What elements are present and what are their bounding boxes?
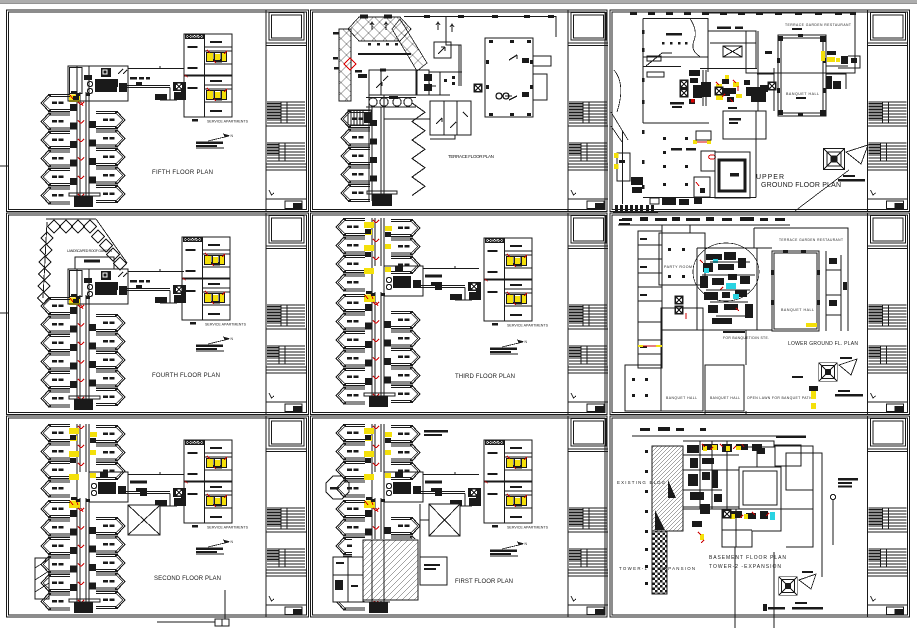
right service corridor <box>826 251 848 331</box>
sheet r2c3 frame <box>610 213 910 415</box>
svg-text:LOWER GROUND FL. PLAN: LOWER GROUND FL. PLAN <box>788 341 858 347</box>
svg-text:LANDSCAPED ROOF GARDEN: LANDSCAPED ROOF GARDEN <box>67 249 112 253</box>
dance floor ellipse <box>693 243 759 301</box>
coffee shop text <box>670 102 684 108</box>
tower block <box>41 66 186 207</box>
kite flag <box>846 145 868 164</box>
kitchen column <box>680 80 689 89</box>
lobby curve <box>690 19 700 57</box>
cross shaft <box>723 46 742 57</box>
stilted area walls <box>662 225 772 414</box>
diamond roof top row <box>348 17 411 41</box>
left annex <box>617 153 630 181</box>
svg-text:TERRACE GARDEN RESTAURANT: TERRACE GARDEN RESTAURANT <box>779 238 843 242</box>
party room <box>659 233 705 285</box>
left margin leader ticks <box>0 165 8 167</box>
cross box <box>420 504 460 557</box>
svg-text:BANQUET HALL: BANQUET HALL <box>666 396 697 400</box>
central core mass <box>744 80 768 102</box>
svg-text:GROUND FLOOR PLAN: GROUND FLOOR PLAN <box>761 182 841 189</box>
restaurant outline <box>754 228 848 277</box>
top arrows <box>370 22 454 32</box>
banquet hall <box>778 35 826 116</box>
building outer walls <box>643 13 855 198</box>
left wall ticks <box>642 30 645 189</box>
stilted area text <box>723 331 745 333</box>
service apartments block <box>484 440 549 530</box>
top room text <box>717 27 743 29</box>
sheet r1c3 frame <box>610 10 910 212</box>
porch blobs <box>662 198 702 205</box>
interior walls <box>683 441 775 547</box>
road line <box>795 170 849 211</box>
dotted row <box>358 43 411 55</box>
kitchen core <box>68 269 150 304</box>
kitchen core <box>68 66 150 101</box>
checkerboard strip <box>652 531 667 594</box>
bank hall columns <box>663 137 688 186</box>
diamond roof right leg <box>392 19 427 71</box>
building outline <box>683 441 822 577</box>
dense interior bits <box>687 444 768 527</box>
corridor jambs <box>370 120 377 182</box>
lift <box>723 510 732 519</box>
north arrow <box>196 134 234 149</box>
service apartments block <box>182 237 247 327</box>
svg-text:FIFTH FLOOR PLAN: FIFTH FLOOR PLAN <box>152 170 213 176</box>
SHEET r3c3 : BASEMENT FLOOR PLAN <box>617 427 858 628</box>
masks <box>352 539 420 601</box>
terrace tower corridor <box>369 95 430 201</box>
stair block left <box>348 110 371 125</box>
north arrow <box>490 340 528 355</box>
svg-text:BANQUET HALL: BANQUET HALL <box>710 396 740 400</box>
mid room block <box>430 101 471 139</box>
north arrow <box>196 540 234 555</box>
title strips <box>266 10 306 211</box>
level text <box>835 357 863 396</box>
tower block <box>41 472 186 613</box>
SHEET r2c1 : FOURTH FLOOR PLAN <box>38 219 247 410</box>
yellow service cluster NE <box>821 51 840 62</box>
entry steps comb <box>615 205 654 212</box>
left hatch strip <box>652 446 683 531</box>
sheet r1c1 frame <box>7 10 309 212</box>
long verticals <box>734 547 736 628</box>
left annex rooms <box>333 557 363 602</box>
svg-text:BANQUET HALL: BANQUET HALL <box>781 308 814 312</box>
kitchen walls <box>702 262 755 316</box>
bank hall text <box>671 148 696 151</box>
exit mh text <box>838 478 858 487</box>
svg-text:OPEN LAWN FOR BANQUET PATIO: OPEN LAWN FOR BANQUET PATIO <box>747 396 813 400</box>
kitchen core right <box>384 472 423 502</box>
water text <box>792 376 803 378</box>
top marks <box>640 427 806 438</box>
upper room furniture <box>662 33 688 44</box>
mid connector <box>826 76 841 89</box>
svg-text:FOURTH FLOOR PLAN: FOURTH FLOOR PLAN <box>152 373 220 379</box>
top edge ticks <box>630 12 856 15</box>
top ramp ticks <box>622 217 785 221</box>
stage circles <box>366 98 416 108</box>
service apartments block <box>184 34 249 124</box>
upper wings <box>336 218 442 292</box>
svg-text:TERRACE GARDEN RESTAURANT: TERRACE GARDEN RESTAURANT <box>785 23 851 27</box>
svg-text:PARTY ROOM: PARTY ROOM <box>664 265 692 269</box>
tower left wings <box>341 110 370 128</box>
corridor through terrace <box>372 540 384 602</box>
pyramid skylight <box>819 363 838 382</box>
crossed circle <box>474 84 483 93</box>
chamfer wall <box>646 53 672 66</box>
beauty parlour box <box>723 111 766 139</box>
sheet r3c2 frame <box>311 416 608 617</box>
SHEET r3c1 : SECOND FLOOR PLAN <box>35 424 249 626</box>
kitchen counters right <box>429 72 462 95</box>
level texts <box>763 571 823 611</box>
corridor <box>702 70 704 106</box>
tower block <box>336 472 481 613</box>
ramp steps text <box>619 219 630 225</box>
kitchen core right <box>89 472 128 502</box>
SHEET r3c2 : FIRST FLOOR PLAN <box>326 424 549 613</box>
right banquet hall <box>772 251 819 331</box>
octagon hall <box>326 476 349 499</box>
tower block <box>336 266 481 407</box>
bottom stair core <box>372 194 392 206</box>
svg-text:THIRD FLOOR PLAN: THIRD FLOOR PLAN <box>455 374 515 380</box>
lift text <box>728 107 737 109</box>
dark ramp triangles <box>655 510 665 530</box>
arrow court box <box>434 42 451 58</box>
lift pair <box>675 296 684 305</box>
yellow hydrant <box>811 391 816 409</box>
upper wings <box>336 424 442 498</box>
north arrow <box>490 542 528 557</box>
sheet r3c1 frame <box>7 416 309 617</box>
bottom-left annex <box>625 365 661 411</box>
coffee shop shelf <box>647 72 664 77</box>
svg-text:TOWER-2 -EXPANSION: TOWER-2 -EXPANSION <box>709 564 781 570</box>
side rooms <box>694 177 710 197</box>
right annex <box>420 557 447 585</box>
service apartments block <box>184 440 249 530</box>
left edge dashes <box>333 32 362 73</box>
upper wings <box>41 424 147 498</box>
top boundary ticks <box>360 15 554 19</box>
tower block <box>41 269 186 410</box>
service apartments block <box>484 238 549 328</box>
sheet r3c3 frame <box>610 416 910 617</box>
stair shaft <box>715 152 750 198</box>
sheet r1c2 frame <box>311 10 608 212</box>
toilet block red line <box>694 141 711 143</box>
cross box <box>128 505 160 535</box>
kitchen cluster <box>700 252 753 324</box>
right pavilion building <box>485 38 551 117</box>
diamond roof left leg <box>339 29 351 101</box>
red diamond <box>344 58 356 70</box>
left annex <box>35 558 49 599</box>
terrace top boundary <box>404 17 556 87</box>
SHEET r2c2 : THIRD FLOOR PLAN <box>336 218 549 407</box>
svg-text:SECOND FLOOR PLAN: SECOND FLOOR PLAN <box>154 576 221 582</box>
red/yellow dots row <box>700 445 748 540</box>
kitchen core right <box>384 266 423 296</box>
mid banquet hall <box>705 365 744 411</box>
svg-text:TERRACE FLOOR PLAN: TERRACE FLOOR PLAN <box>448 154 494 159</box>
tower right zigzag edge <box>412 103 425 196</box>
sheet r2c2 frame <box>311 213 608 415</box>
kite flag <box>799 574 816 589</box>
survey mark below sheet <box>157 590 229 626</box>
SHEET r1c3 : UPPER GROUND FLOOR PLAN <box>611 12 868 212</box>
north arrow <box>196 337 234 352</box>
pyramid <box>779 577 798 596</box>
SHEET r1c1 : FIFTH FLOOR PLAN <box>41 34 249 207</box>
kite flag <box>839 359 857 375</box>
left red dash <box>638 345 662 347</box>
hatched terrace <box>363 540 418 600</box>
SHEET r2c3 : LOWER GROUND FLOOR PLAN <box>618 217 863 414</box>
lift cluster <box>701 79 736 102</box>
left margin yellows <box>614 153 619 169</box>
roof diamond chain <box>38 219 128 304</box>
red door <box>709 155 716 159</box>
left banquet hall <box>661 308 703 411</box>
svg-text:BASEMENT FLOOR PLAN: BASEMENT FLOOR PLAN <box>709 555 786 561</box>
modified entry text <box>424 430 448 436</box>
left rooms strip <box>638 231 662 368</box>
central pavilion block <box>369 70 429 95</box>
svg-text:EXPANSION: EXPANSION <box>660 566 695 571</box>
svg-text:BANQUET HALL: BANQUET HALL <box>786 92 819 96</box>
road text <box>838 175 865 181</box>
pyramid skylight <box>824 149 845 170</box>
SHEET r1c2 : TERRACE FLOOR PLAN <box>333 15 556 207</box>
kitchen entry outline <box>75 257 114 269</box>
svg-text:FIRST FLOOR PLAN: FIRST FLOOR PLAN <box>455 579 513 585</box>
sheet r2c1 frame <box>7 213 309 415</box>
exit shaft <box>830 494 835 499</box>
driveway curve <box>614 70 621 112</box>
browser top bar <box>0 0 917 3</box>
column dots <box>645 450 648 585</box>
svg-text:UPPER: UPPER <box>756 174 784 181</box>
